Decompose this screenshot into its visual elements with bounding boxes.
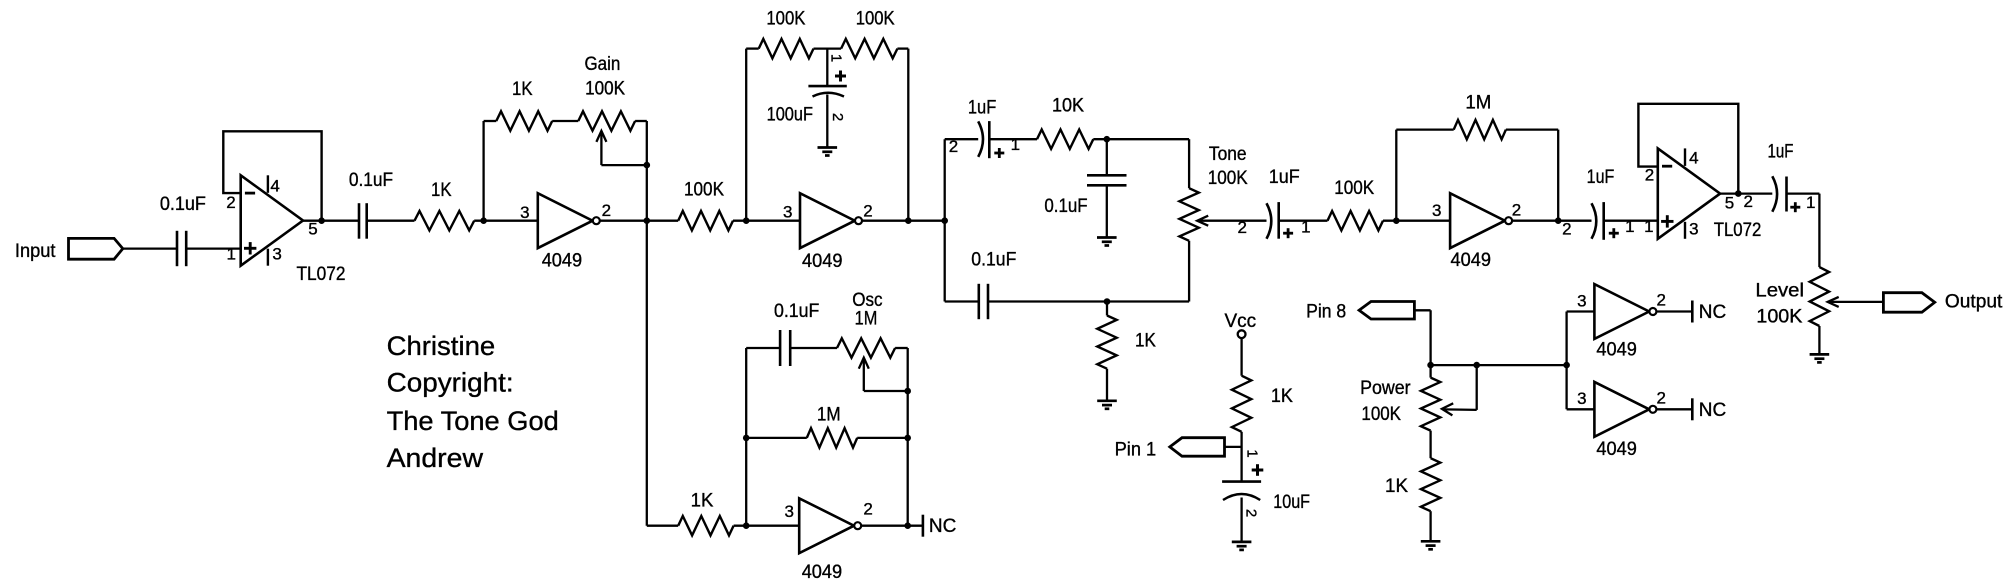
label 100K (feedback B) xyxy=(856,9,895,30)
resistor R 1M (U4 feedback) xyxy=(1454,120,1506,139)
wire 1uF to R 100K xyxy=(1279,220,1328,222)
junction tone network left column xyxy=(941,217,948,224)
wire right riser gain loop down to oscillator xyxy=(646,121,648,526)
junction U6 output xyxy=(904,522,911,529)
wire U7 output to NC xyxy=(1657,310,1692,312)
op-amp U5 TL072 (second half) xyxy=(1658,148,1720,238)
svg-text:2: 2 xyxy=(1656,388,1665,407)
svg-text:Tone: Tone xyxy=(1209,144,1247,165)
svg-text:10K: 10K xyxy=(1052,96,1084,117)
wire 10K to tone pot top xyxy=(1093,138,1189,140)
wire 1uF to U5 + input xyxy=(1604,220,1658,222)
junction gain-loop left xyxy=(480,217,487,224)
svg-text:4049: 4049 xyxy=(1451,250,1492,271)
svg-text:100K: 100K xyxy=(1208,168,1248,189)
wire branch to U7 input xyxy=(1567,310,1595,312)
label 100K (feedback A) xyxy=(766,9,805,30)
svg-text:5: 5 xyxy=(1725,193,1734,212)
junction 10K / 0.1uF xyxy=(1104,136,1111,143)
wire R 100K to U3 input xyxy=(733,220,800,222)
junction U3 input node xyxy=(743,217,750,224)
pin label 4 (U1) xyxy=(270,177,279,196)
inverter U6 4049 (oscillator) xyxy=(799,498,861,553)
pin label 3 (U1) xyxy=(272,245,281,264)
ground (10uF) xyxy=(1232,542,1252,550)
wire U5 feedback loop xyxy=(1638,104,1738,194)
capacitor C 0.1uF (tone bottom) xyxy=(979,284,988,319)
label 100K (series) xyxy=(684,180,724,201)
wire U2 output to R 100K xyxy=(600,220,678,222)
label Gain xyxy=(585,54,621,75)
potentiometer Gain 100K xyxy=(578,111,647,165)
resistor R 1K (oscillator) xyxy=(678,516,733,535)
label Tone xyxy=(1209,144,1247,165)
svg-text:1: 1 xyxy=(1806,193,1815,212)
Vcc terminal xyxy=(1238,330,1246,338)
svg-text:Christine: Christine xyxy=(387,331,496,361)
resistor R 100K (between U2 and U3) xyxy=(678,211,733,230)
label Vcc xyxy=(1225,311,1257,332)
svg-text:1K: 1K xyxy=(1385,476,1408,497)
svg-text:2: 2 xyxy=(1562,220,1571,239)
label 4049 (U4) xyxy=(1451,250,1492,271)
capacitor C 0.1uF (tone shunt) xyxy=(1087,139,1127,237)
svg-text:1K: 1K xyxy=(431,180,452,201)
svg-text:1uF: 1uF xyxy=(1768,142,1794,163)
connector J2 Output xyxy=(1883,293,1934,313)
svg-text:Vcc: Vcc xyxy=(1225,311,1257,332)
capacitor C 0.1uF input xyxy=(177,231,186,266)
svg-text:100K: 100K xyxy=(1334,178,1374,199)
svg-text:1M: 1M xyxy=(855,309,878,330)
svg-text:4: 4 xyxy=(270,177,279,196)
wire oscillator right riser xyxy=(907,348,909,526)
svg-text:NC: NC xyxy=(929,516,956,537)
label 1K (power divider) xyxy=(1385,476,1408,497)
svg-text:0.1uF: 0.1uF xyxy=(349,170,393,191)
label 10uF xyxy=(1273,492,1310,513)
svg-text:2: 2 xyxy=(1645,165,1654,184)
pin label 2 (100uF -) xyxy=(829,113,846,121)
resistor R 1K (Vcc dropper) xyxy=(1232,376,1251,432)
ground (level pot) xyxy=(1810,354,1830,362)
label 1K (gain loop) xyxy=(512,79,533,100)
pin label 3 (U8 input) xyxy=(1577,389,1586,408)
pin label 1 (10uF +) xyxy=(1244,449,1261,457)
svg-text:1: 1 xyxy=(1644,217,1653,236)
svg-text:0.1uF: 0.1uF xyxy=(971,250,1016,271)
pin label 1 (1uF into U5) xyxy=(1625,217,1634,236)
label 0.1uF (oscillator) xyxy=(774,301,819,322)
svg-text:Power: Power xyxy=(1360,378,1411,399)
connector J1 Input xyxy=(69,238,123,259)
wire 1K to Pin1 node xyxy=(1240,432,1242,482)
junction U2 output node xyxy=(644,217,651,224)
wire input to C1 xyxy=(123,247,177,249)
svg-text:1M: 1M xyxy=(817,405,841,426)
label 100K (into U4) xyxy=(1334,178,1374,199)
wire U3 feedback left riser xyxy=(745,49,747,221)
junction U6 input node xyxy=(743,522,750,529)
wire U4 feedback loop 1M xyxy=(1396,130,1453,221)
wire osc top loop right xyxy=(895,347,908,349)
svg-text:0.1uF: 0.1uF xyxy=(774,301,819,322)
op-amp U1 TL072 (first half) xyxy=(241,175,303,265)
text Copyright: xyxy=(387,368,514,398)
label NC (U7) xyxy=(1699,302,1726,323)
svg-text:2: 2 xyxy=(863,500,872,519)
junction feedback right at output xyxy=(905,217,912,224)
inverter U2 4049 (first) xyxy=(538,193,600,248)
wire power pot to 1K xyxy=(1429,431,1431,459)
capacitor C 1uF electrolytic (into U5) xyxy=(1592,202,1619,240)
label 1uF (after tone) xyxy=(1269,167,1300,188)
resistor R 10K xyxy=(1037,130,1093,149)
svg-text:4: 4 xyxy=(1689,149,1698,168)
wire 1K to ground xyxy=(1429,511,1431,541)
pin label 1 (1uF after tone) xyxy=(1301,218,1310,237)
inverter U3 4049 (second) xyxy=(800,193,862,248)
wire feedback middle xyxy=(814,47,842,49)
junction tone bottom / 1K xyxy=(1104,298,1111,305)
label 100uF xyxy=(767,104,813,125)
svg-text:1: 1 xyxy=(1244,449,1261,457)
wire U6 output to NC xyxy=(862,525,923,527)
potentiometer Level 100K xyxy=(1810,267,1839,354)
svg-text:1K: 1K xyxy=(1135,331,1156,352)
label 0.1uF (after U1) xyxy=(349,170,393,191)
junction osc 1M right xyxy=(904,435,911,442)
wire gain loop top left xyxy=(484,120,497,122)
wire feedback top right stub xyxy=(897,47,908,49)
svg-text:TL072: TL072 xyxy=(297,264,346,285)
pin label 2 (U6 output) xyxy=(863,500,872,519)
svg-text:0.1uF: 0.1uF xyxy=(1044,196,1087,217)
label TL072 (U5) xyxy=(1714,220,1762,241)
label Pin 1 xyxy=(1115,439,1157,460)
svg-text:5: 5 xyxy=(308,219,317,238)
wire between 1K and gain pot xyxy=(552,120,578,122)
label Pin 8 xyxy=(1306,302,1346,323)
wire 1uF to level pot xyxy=(1787,194,1820,268)
pin label 2 (U3 output) xyxy=(863,202,872,221)
svg-text:TL072: TL072 xyxy=(1714,220,1762,241)
connector Pin 8 xyxy=(1359,302,1414,320)
svg-text:2: 2 xyxy=(1512,201,1521,220)
svg-text:3: 3 xyxy=(1432,201,1441,220)
wire osc 1M middle left xyxy=(746,437,807,439)
label 1M (U4 feedback) xyxy=(1465,93,1491,114)
wire inverter branch riser xyxy=(1565,312,1567,410)
svg-text:3: 3 xyxy=(1577,389,1586,408)
svg-text:2: 2 xyxy=(1237,218,1246,237)
pin label 3 (U6 input) xyxy=(784,502,793,521)
wire tone bottom branch left xyxy=(945,300,979,302)
svg-text:Level: Level xyxy=(1755,281,1804,302)
wire R 1K to U2 input xyxy=(474,220,538,222)
pin label 1 (tone top cap) xyxy=(1011,135,1020,154)
ground (tone bottom) xyxy=(1097,401,1117,409)
label 0.1uF (input cap) xyxy=(160,194,206,215)
resistor R 1M (oscillator) xyxy=(807,428,857,447)
svg-text:1uF: 1uF xyxy=(1587,167,1615,188)
label 1uF (output) xyxy=(1768,142,1794,163)
svg-text:2: 2 xyxy=(863,202,872,221)
svg-text:Copyright:: Copyright: xyxy=(387,368,514,398)
label 100K (power pot) xyxy=(1361,404,1401,425)
label 100K (gain pot) xyxy=(585,79,625,100)
wire C1 to U1 + input xyxy=(186,247,241,249)
svg-text:1K: 1K xyxy=(691,490,714,511)
svg-text:3: 3 xyxy=(1689,219,1698,238)
pin label 3 (U5) xyxy=(1689,219,1698,238)
label 4049 (U2) xyxy=(542,251,583,272)
wire U4 output to 1uF xyxy=(1513,220,1592,222)
svg-text:1uF: 1uF xyxy=(1269,167,1300,188)
svg-text:NC: NC xyxy=(1699,302,1726,323)
svg-text:Pin 1: Pin 1 xyxy=(1115,439,1157,460)
resistor R 1K (series input of U2) xyxy=(415,211,475,230)
capacitor C 0.1uF (oscillator) xyxy=(780,330,790,366)
label 1K (tone bottom) xyxy=(1135,331,1156,352)
label 4049 (U7) xyxy=(1596,340,1637,361)
wire tone wiper to 1uF xyxy=(1197,220,1266,222)
label Input xyxy=(15,241,56,262)
svg-text:4049: 4049 xyxy=(802,562,843,583)
wire gain loop top right xyxy=(635,120,647,122)
wire cap to osc pot xyxy=(790,347,837,349)
pin label 2 (tone top cap) xyxy=(949,137,958,156)
pin label 3 (U7 input) xyxy=(1577,291,1586,310)
pin label 4 (U5) xyxy=(1689,149,1698,168)
svg-text:3: 3 xyxy=(783,203,792,222)
pin label 2 (U4 output) xyxy=(1512,201,1521,220)
potentiometer Tone 100K xyxy=(1179,139,1208,301)
svg-text:The Tone God: The Tone God xyxy=(387,406,559,436)
wire oscillator left riser xyxy=(745,348,747,526)
title text Christine xyxy=(387,331,496,361)
label 1uF (into U5) xyxy=(1587,167,1615,188)
wire U3 feedback right riser xyxy=(907,49,909,221)
label 100K (tone pot) xyxy=(1208,168,1248,189)
label 4049 (U6) xyxy=(802,562,843,583)
junction power pot top xyxy=(1427,362,1434,369)
wire feedback top left stub xyxy=(746,47,759,49)
junction power wiper riser xyxy=(1473,362,1480,369)
svg-text:1M: 1M xyxy=(1465,93,1491,114)
potentiometer Osc 1M xyxy=(837,338,908,391)
wire U3 output to tone network xyxy=(863,220,945,222)
label 4049 (U8) xyxy=(1596,439,1637,460)
svg-text:NC: NC xyxy=(1699,400,1726,421)
pin label 1 (output 1uF pos) xyxy=(1806,193,1815,212)
wire 1M to right riser xyxy=(1506,130,1558,221)
svg-text:3: 3 xyxy=(272,245,281,264)
pin label 2 (1uF into U5) xyxy=(1562,220,1571,239)
wire U1 output xyxy=(303,220,359,222)
svg-text:Pin 8: Pin 8 xyxy=(1306,302,1346,323)
text The Tone God xyxy=(387,406,559,436)
NC stub (U8) xyxy=(1691,398,1694,420)
svg-text:10uF: 10uF xyxy=(1273,492,1310,513)
wire power rail xyxy=(1431,364,1567,366)
svg-text:4049: 4049 xyxy=(542,251,583,272)
wire C2 to R 1K xyxy=(367,220,415,222)
label 4049 (U3) xyxy=(802,251,843,272)
svg-text:1uF: 1uF xyxy=(968,98,996,119)
wire tone left column xyxy=(944,139,946,301)
label 0.1uF (tone shunt) xyxy=(1044,196,1087,217)
capacitor C 1uF electrolytic (tone top) xyxy=(978,121,1004,158)
wire Pin8 to power pot xyxy=(1414,310,1430,377)
junction U1 output/feedback xyxy=(318,217,325,224)
svg-text:1K: 1K xyxy=(512,79,533,100)
svg-text:2: 2 xyxy=(1743,192,1752,211)
label NC (U8) xyxy=(1699,400,1726,421)
pin label 3 (U2 input) xyxy=(520,203,529,222)
label 1K (series resistor) xyxy=(431,180,452,201)
svg-text:2: 2 xyxy=(602,201,611,220)
svg-text:1K: 1K xyxy=(1271,386,1293,407)
pin label 1 (U5 non-inverting) xyxy=(1644,217,1653,236)
pin label 2 (U2 output) xyxy=(602,201,611,220)
svg-text:2: 2 xyxy=(1656,291,1665,310)
wire Pin1 connector stub xyxy=(1225,446,1242,448)
svg-text:2: 2 xyxy=(1243,509,1260,517)
junction U4 output/feedback xyxy=(1555,217,1562,224)
junction osc 1M left xyxy=(743,435,750,442)
capacitor C 1uF electrolytic (output) xyxy=(1772,176,1800,212)
pin label 3 (U4 input) xyxy=(1432,201,1441,220)
wire osc 1M middle right xyxy=(857,437,908,439)
junction U5 output/feedback xyxy=(1735,190,1742,197)
resistor R 100K (feedback A) xyxy=(759,39,814,58)
capacitor C 0.1uF (after U1) xyxy=(359,203,367,239)
svg-text:100K: 100K xyxy=(856,9,895,30)
label 100K (level pot) xyxy=(1756,307,1802,328)
wire osc top loop left xyxy=(746,347,780,349)
NC stub (oscillator) xyxy=(922,515,925,537)
label 1M (oscillator) xyxy=(817,405,841,426)
svg-text:100K: 100K xyxy=(585,79,625,100)
wire U8 output to NC xyxy=(1657,408,1692,410)
svg-text:4049: 4049 xyxy=(802,251,843,272)
svg-text:2: 2 xyxy=(226,193,235,212)
inverter U7 4049 (spare top) xyxy=(1594,284,1656,339)
ground (tone shunt) xyxy=(1097,238,1117,246)
svg-text:100K: 100K xyxy=(1361,404,1401,425)
label 1uF (tone top) xyxy=(968,98,996,119)
pin label 1 (U1 non-inverting) xyxy=(226,245,235,264)
inverter U8 4049 (spare bottom) xyxy=(1594,382,1656,437)
svg-text:2: 2 xyxy=(829,113,846,121)
pin label 2 (U7 output) xyxy=(1656,291,1665,310)
wire 1K to U6 input xyxy=(734,525,800,527)
label Level xyxy=(1755,281,1804,302)
capacitor C 10uF electrolytic xyxy=(1222,464,1263,542)
NC stub (U7) xyxy=(1691,301,1694,323)
capacitor C 100uF electrolytic xyxy=(808,49,846,148)
svg-text:3: 3 xyxy=(520,203,529,222)
svg-text:100K: 100K xyxy=(684,180,724,201)
resistor R 100K (feedback B) xyxy=(841,39,897,58)
svg-text:Gain: Gain xyxy=(585,54,621,75)
label Power xyxy=(1360,378,1411,399)
svg-text:1: 1 xyxy=(1011,135,1020,154)
junction gain wiper xyxy=(644,162,651,169)
svg-text:4049: 4049 xyxy=(1596,340,1637,361)
junction inverter branch xyxy=(1563,362,1570,369)
wire oscillator input row xyxy=(647,525,678,527)
inverter U4 4049 xyxy=(1450,193,1512,248)
label 1M (osc pot) xyxy=(855,309,878,330)
pin label 2 (U5 inverting) xyxy=(1645,165,1654,184)
svg-text:Input: Input xyxy=(15,241,56,262)
potentiometer Power 100K xyxy=(1421,365,1477,431)
svg-text:100uF: 100uF xyxy=(767,104,813,125)
label 10K xyxy=(1052,96,1084,117)
svg-text:1: 1 xyxy=(226,245,235,264)
wire branch to U8 input xyxy=(1567,408,1595,410)
junction U4 input node xyxy=(1393,217,1400,224)
label Osc xyxy=(852,290,882,311)
pin label 2 (U8 output) xyxy=(1656,388,1665,407)
resistor R 1K (gain loop) xyxy=(496,111,552,130)
resistor R 1K (tone shunt to ground) xyxy=(1097,302,1116,401)
svg-text:3: 3 xyxy=(1577,291,1586,310)
svg-text:1: 1 xyxy=(828,54,845,62)
svg-text:Output: Output xyxy=(1945,292,2003,313)
pin label 5 (U5 output) xyxy=(1725,193,1734,212)
label TL072 (U1) xyxy=(297,264,346,285)
label 1K (oscillator) xyxy=(691,490,714,511)
connector Pin 1 xyxy=(1170,438,1225,457)
ground (power divider) xyxy=(1421,541,1441,549)
pin label 2 (output 1uF neg) xyxy=(1743,192,1752,211)
wire tone bottom branch right xyxy=(988,300,1189,302)
pin label 2 (1uF after tone) xyxy=(1237,218,1246,237)
wire U5 output xyxy=(1720,192,1772,194)
text Andrew xyxy=(387,443,484,473)
label 1K (Vcc) xyxy=(1271,386,1293,407)
pin label 5 (U1 output) xyxy=(308,219,317,238)
wire Vcc to 1K xyxy=(1240,338,1242,376)
label NC (oscillator) xyxy=(929,516,956,537)
label Output xyxy=(1945,292,2003,313)
svg-text:2: 2 xyxy=(949,137,958,156)
resistor R 100K (into U4) xyxy=(1328,211,1384,230)
svg-text:3: 3 xyxy=(784,502,793,521)
wire U1 feedback loop xyxy=(223,131,321,220)
svg-text:4049: 4049 xyxy=(1596,439,1637,460)
capacitor C 1uF electrolytic (after tone) xyxy=(1267,202,1294,239)
wire tone top branch left xyxy=(945,138,979,140)
pin label 3 (U3 input) xyxy=(783,203,792,222)
pin label 2 (U1 inverting) xyxy=(226,193,235,212)
wire R 100K to U4 input xyxy=(1383,220,1450,222)
wire gain loop left riser xyxy=(482,121,484,221)
svg-text:0.1uF: 0.1uF xyxy=(160,194,206,215)
svg-text:100K: 100K xyxy=(766,9,805,30)
wire level wiper to output connector xyxy=(1828,301,1884,303)
junction osc wiper xyxy=(904,388,911,395)
svg-text:Andrew: Andrew xyxy=(387,443,484,473)
ground (100uF) xyxy=(818,148,838,156)
pin label 2 (10uF -) xyxy=(1243,509,1260,517)
label 0.1uF (tone bottom) xyxy=(971,250,1016,271)
pin label 1 (100uF +) xyxy=(828,54,845,62)
resistor R 1K (power divider) xyxy=(1421,458,1440,511)
